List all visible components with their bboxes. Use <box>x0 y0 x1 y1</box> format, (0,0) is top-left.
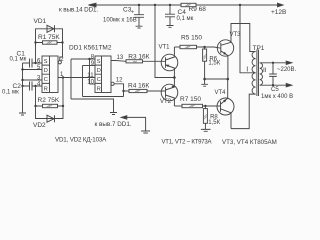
transformer TP1 primary winding I <box>252 52 256 95</box>
wire C3 drop <box>138 5 140 15</box>
svg-text:VT3: VT3 <box>230 32 242 38</box>
wire R5 to VT3 base <box>197 47 221 48</box>
resistor R8 <box>203 109 207 124</box>
ground under C4 <box>167 26 174 28</box>
node pin6 junction <box>34 62 36 64</box>
wire R1 leads <box>36 42 63 44</box>
capacitor C2 <box>30 82 33 91</box>
node bus pin3 <box>21 79 23 81</box>
svg-text:C: C <box>97 77 101 83</box>
svg-text:ТР1: ТР1 <box>253 45 265 52</box>
svg-text:R1 75K: R1 75K <box>38 34 60 41</box>
wire C2 row pin 4 <box>23 85 43 87</box>
capacitor C3 <box>134 15 144 26</box>
wire secondary bottom output <box>260 84 287 86</box>
wire R5 lead left <box>174 46 180 48</box>
svg-text:VT1: VT1 <box>159 44 171 50</box>
node pin1 junction <box>62 76 64 78</box>
transistor VT4 <box>217 98 234 115</box>
wire pin 1 output row <box>58 77 95 79</box>
ground under R6 <box>201 84 208 86</box>
node R8 top <box>204 105 206 107</box>
op-amp DD1.2 flip-flop box <box>95 56 111 93</box>
wire R4 to VT2 base <box>147 90 166 92</box>
transistor VT2 <box>161 84 178 101</box>
svg-text:R: R <box>44 86 48 92</box>
wire +12V rail left segment <box>96 4 181 6</box>
wire +12V rail right segment <box>196 4 278 6</box>
capacitor C4 <box>165 14 175 25</box>
svg-text:11: 11 <box>87 73 94 79</box>
wire DD1.2 ground line <box>71 99 114 113</box>
resistor R3 <box>126 60 143 63</box>
node C5 top <box>272 62 274 64</box>
arrow +12V <box>278 3 284 7</box>
svg-text:0,1 мк: 0,1 мк <box>177 16 194 22</box>
wire pin1 to R2 right <box>62 78 64 107</box>
svg-text:S: S <box>97 59 101 65</box>
wire supply drop to emitters of VT1 VT2 <box>155 5 174 78</box>
arrow to pin 14 DD1 <box>89 3 97 7</box>
svg-text:R7 150: R7 150 <box>180 96 201 103</box>
svg-text:13: 13 <box>117 55 124 61</box>
wire VT2 collector to R7 <box>174 105 182 107</box>
svg-text:R5 150: R5 150 <box>181 35 202 42</box>
node supply drop junction <box>154 4 156 6</box>
wire pin8 riser to ground line <box>70 59 72 99</box>
node emitters VT1 VT2 <box>173 76 176 79</box>
diode VD1 <box>47 25 55 32</box>
svg-text:к выв.14 DD1.: к выв.14 DD1. <box>59 7 98 14</box>
svg-text:VD2: VD2 <box>33 122 46 129</box>
wire R2 left riser <box>35 86 37 106</box>
wire emitters rail VT3 VT4 <box>205 78 228 80</box>
wire R1 left riser <box>35 43 37 64</box>
node C4 top junction <box>169 4 171 6</box>
node pin4 junction <box>34 85 36 87</box>
wire to pin 7 DD1 ground stub <box>127 117 146 131</box>
svg-text:D: D <box>44 68 48 74</box>
svg-text:C: C <box>44 77 48 83</box>
transformer TP1 core <box>257 50 259 97</box>
diode VD2 <box>47 115 55 122</box>
resistor R2 <box>43 104 58 107</box>
svg-text:0,1 мк: 0,1 мк <box>2 90 19 96</box>
op-amp DD1.1 flip-flop box <box>42 56 58 93</box>
wire pin 12 output <box>114 84 123 97</box>
svg-text:10: 10 <box>87 79 94 85</box>
svg-text:R9 68: R9 68 <box>189 6 207 13</box>
ground under R8 <box>201 129 211 131</box>
svg-text:R: R <box>97 86 101 92</box>
svg-text:R4 16К: R4 16К <box>128 83 149 90</box>
svg-text:II: II <box>263 67 267 74</box>
node emitters VT3 VT4 <box>227 78 230 81</box>
resistor R6 <box>203 49 207 61</box>
wire R7 to VT4 base <box>203 105 221 107</box>
wire VD1 branch <box>36 29 63 43</box>
svg-text:к выв.7 DD1.: к выв.7 DD1. <box>95 121 132 128</box>
wire C4 drop <box>169 5 171 14</box>
svg-text:VD1: VD1 <box>34 18 47 25</box>
svg-text:D: D <box>97 68 101 74</box>
svg-text:100мк x 16В: 100мк x 16В <box>103 18 137 24</box>
node R1 left <box>34 41 36 43</box>
ground under C3 <box>136 26 143 28</box>
svg-text:1,5К: 1,5К <box>208 120 220 126</box>
node R2 left <box>34 105 36 107</box>
svg-text:I: I <box>246 66 248 73</box>
wire pin 3 row <box>23 79 43 81</box>
svg-text:S: S <box>44 59 48 65</box>
capacitor C1 <box>30 59 33 68</box>
node bus C2 <box>21 85 23 87</box>
svg-text:VT2: VT2 <box>160 99 172 105</box>
node C5 bottom <box>272 84 274 86</box>
wire secondary top output <box>260 62 287 64</box>
transistor VT3 <box>217 40 233 56</box>
svg-text:+12В: +12В <box>271 9 286 16</box>
node R6 rail junction <box>203 78 206 81</box>
ground left bus <box>19 113 26 115</box>
wire pin 10 row <box>90 83 96 85</box>
wire R3 to VT1 base <box>143 60 166 62</box>
transistor VT1 <box>161 54 178 71</box>
wire pin 9 row <box>83 65 96 67</box>
node pin8 tie <box>88 58 90 60</box>
svg-text:VT4: VT4 <box>215 90 227 96</box>
resistor R7 <box>182 104 203 107</box>
wire R6 bottom <box>204 61 206 84</box>
ground DD1.2 <box>110 113 117 115</box>
wire R4 lead left <box>124 90 130 92</box>
wire pin 8 row <box>71 58 95 60</box>
transformer TP1 secondary winding II <box>260 63 263 85</box>
node bus pin5 <box>21 68 23 70</box>
resistor power marks <box>47 4 207 119</box>
wire R8 bottom <box>204 123 206 129</box>
svg-text:12: 12 <box>116 78 123 84</box>
resistor R9 <box>181 3 196 6</box>
wire pin8 pin10 tie <box>89 59 91 84</box>
node R6 top <box>203 46 205 48</box>
wire pin9 riser to feedback <box>82 66 84 97</box>
svg-text:+: + <box>131 9 134 15</box>
svg-text:C5: C5 <box>271 87 279 93</box>
svg-text:R3 16К: R3 16К <box>128 53 149 60</box>
wire pin 13 output row <box>111 60 126 63</box>
wire left ground bus <box>22 63 24 113</box>
arrow to pin 7 DD1 <box>121 116 127 119</box>
svg-text:0,1 мк: 0,1 мк <box>10 56 27 62</box>
svg-text:1мк x 400 В: 1мк x 400 В <box>261 94 293 100</box>
wire +12V to TP1 center tap <box>240 5 256 73</box>
wire R6 stem <box>204 47 206 49</box>
wire R8 stem <box>204 106 206 109</box>
wire C1 row pin 6 <box>23 62 43 64</box>
wire R2 leads <box>36 105 64 107</box>
svg-text:R2 75K: R2 75K <box>38 97 60 104</box>
svg-text:1,5К: 1,5К <box>208 61 220 67</box>
svg-text:DD1 К561ТМ2: DD1 К561ТМ2 <box>69 45 112 52</box>
resistor R1 <box>43 41 58 44</box>
wire pin 5 row <box>23 69 43 71</box>
node R4 junction <box>122 90 124 92</box>
arrow output bottom <box>286 84 292 87</box>
svg-text:VT3, VT4 КТ805АМ: VT3, VT4 КТ805АМ <box>222 139 277 146</box>
node R2 right <box>62 105 64 107</box>
node TP1 center tap junction <box>239 4 241 6</box>
capacitor C5 <box>269 63 277 85</box>
wire VD2 branch <box>36 106 64 119</box>
resistor R5 <box>180 45 197 48</box>
svg-text:VD1, VD2 КД-103А: VD1, VD2 КД-103А <box>55 136 107 143</box>
node R1 right <box>61 41 63 43</box>
wire VT4 collector to primary bottom <box>231 94 256 129</box>
arrow output top <box>286 61 292 64</box>
pin 12 inversion circle <box>111 82 114 85</box>
svg-text:~220В.: ~220В. <box>277 67 297 73</box>
pin 2 inversion circle <box>58 61 61 64</box>
ground pin 7 stub <box>141 131 150 133</box>
wire feedback Q2bar to D2 <box>83 96 124 98</box>
resistor R4 <box>129 89 147 92</box>
node C3 top junction <box>138 4 140 6</box>
wire pin2 to R1 right <box>60 43 63 61</box>
svg-text:VT1, VT2 – КТ973А: VT1, VT2 – КТ973А <box>162 139 212 145</box>
